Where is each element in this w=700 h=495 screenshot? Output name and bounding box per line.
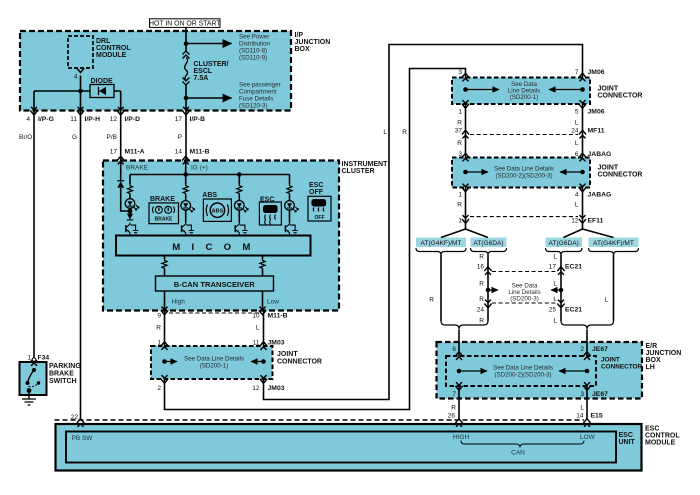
svg-text:F34: F34 <box>38 355 50 362</box>
svg-text:5: 5 <box>575 109 579 116</box>
svg-text:L: L <box>575 140 579 147</box>
svg-text:AT(G4KF)/MT: AT(G4KF)/MT <box>421 240 462 247</box>
svg-text:SWITCH: SWITCH <box>49 378 77 385</box>
svg-text:1: 1 <box>458 218 462 225</box>
svg-text:Br/O: Br/O <box>19 134 32 141</box>
svg-text:JM03: JM03 <box>268 385 285 392</box>
svg-text:L: L <box>605 297 609 304</box>
svg-text:See Power: See Power <box>239 34 269 41</box>
svg-text:JOINT: JOINT <box>601 357 620 364</box>
svg-text:CONNECTOR: CONNECTOR <box>598 93 643 100</box>
svg-text:P: P <box>178 134 182 141</box>
svg-text:L: L <box>580 405 584 412</box>
svg-text:1: 1 <box>458 192 462 199</box>
svg-text:BRAKE: BRAKE <box>126 165 149 172</box>
svg-text:24: 24 <box>477 307 485 314</box>
svg-text:1: 1 <box>157 340 161 347</box>
svg-text:7: 7 <box>452 391 456 398</box>
svg-text:(SD110-8): (SD110-8) <box>239 48 267 55</box>
svg-text:L: L <box>575 120 579 127</box>
svg-text:R: R <box>451 405 456 412</box>
svg-text:AT(G6DA): AT(G6DA) <box>549 240 579 247</box>
svg-text:ESC: ESC <box>645 426 659 433</box>
svg-text:See Data Line Details: See Data Line Details <box>184 356 244 363</box>
svg-text:HOT IN ON OR START: HOT IN ON OR START <box>149 21 221 28</box>
svg-text:LH: LH <box>646 364 655 371</box>
svg-text:(SD200-2)(SD200-3): (SD200-2)(SD200-3) <box>494 372 551 379</box>
svg-text:G: G <box>72 134 77 141</box>
svg-text:ABS: ABS <box>202 192 217 199</box>
svg-text:JE67: JE67 <box>592 391 608 398</box>
svg-text:INSTRUMENT: INSTRUMENT <box>342 161 389 168</box>
svg-text:ABS: ABS <box>211 209 223 215</box>
svg-text:10: 10 <box>252 313 260 320</box>
svg-text:BOX: BOX <box>646 357 662 364</box>
svg-text:17: 17 <box>549 264 557 271</box>
svg-text:OFF: OFF <box>309 189 324 196</box>
svg-text:CONNECTOR: CONNECTOR <box>601 364 642 371</box>
svg-text:L: L <box>553 296 557 303</box>
svg-text:12: 12 <box>110 116 118 123</box>
svg-text:DRL: DRL <box>96 38 111 45</box>
svg-text:4: 4 <box>575 192 579 199</box>
svg-text:MODULE: MODULE <box>645 440 676 447</box>
svg-text:CAN: CAN <box>511 450 525 457</box>
svg-text:M11-B: M11-B <box>190 149 210 156</box>
svg-text:OFF: OFF <box>315 215 325 221</box>
svg-text:BRAKE: BRAKE <box>49 371 74 378</box>
svg-text:22: 22 <box>71 414 79 421</box>
svg-text:BOX: BOX <box>295 46 311 53</box>
svg-text:3: 3 <box>580 391 584 398</box>
svg-text:4: 4 <box>26 116 30 123</box>
svg-text:2: 2 <box>580 346 584 353</box>
svg-text:I/P-H: I/P-H <box>85 116 101 123</box>
svg-text:I/P-D: I/P-D <box>125 116 141 123</box>
svg-text:See passenger: See passenger <box>239 82 281 89</box>
svg-text:L: L <box>575 202 579 209</box>
svg-text:UNIT: UNIT <box>619 439 636 446</box>
svg-text:9: 9 <box>157 313 161 320</box>
svg-text:JUNCTION: JUNCTION <box>295 39 331 46</box>
svg-text:R: R <box>479 296 484 303</box>
svg-text:IG (+): IG (+) <box>191 165 208 172</box>
svg-text:HIGH: HIGH <box>453 434 470 441</box>
svg-text:B-CAN TRANSCEIVER: B-CAN TRANSCEIVER <box>174 280 256 289</box>
svg-text:17: 17 <box>110 149 118 156</box>
svg-text:3: 3 <box>458 69 462 76</box>
svg-text:R: R <box>479 318 484 325</box>
svg-text:Fuse Details: Fuse Details <box>239 96 273 103</box>
svg-text:R: R <box>479 281 484 288</box>
svg-text:1: 1 <box>458 109 462 116</box>
svg-text:L: L <box>256 325 260 332</box>
svg-text:14: 14 <box>576 413 584 420</box>
svg-text:E/R: E/R <box>646 343 658 350</box>
svg-text:CONNECTOR: CONNECTOR <box>277 359 322 366</box>
svg-text:(SD200-3): (SD200-3) <box>510 296 539 303</box>
svg-text:CONTROL: CONTROL <box>645 433 680 440</box>
svg-text:ESC: ESC <box>260 197 274 204</box>
svg-text:(SD110-9): (SD110-9) <box>239 55 267 62</box>
svg-text:P/B: P/B <box>107 134 117 141</box>
svg-text:6: 6 <box>575 151 579 158</box>
svg-text:37: 37 <box>455 128 463 135</box>
svg-text:12: 12 <box>252 385 260 392</box>
svg-text:R: R <box>457 120 462 127</box>
svg-text:BRAKE: BRAKE <box>150 196 175 203</box>
svg-text:PB SW: PB SW <box>72 435 94 442</box>
svg-text:I/P-G: I/P-G <box>38 116 54 123</box>
svg-text:EF11: EF11 <box>588 218 604 225</box>
svg-text:R: R <box>457 202 462 209</box>
svg-text:4: 4 <box>74 74 78 81</box>
svg-text:AT(G4KF)/MT: AT(G4KF)/MT <box>593 240 634 247</box>
svg-text:EC21: EC21 <box>565 264 582 271</box>
svg-text:7: 7 <box>575 69 579 76</box>
svg-text:(SD200-2)(SD200-3): (SD200-2)(SD200-3) <box>495 173 552 180</box>
svg-text:Low: Low <box>267 299 279 306</box>
svg-text:JABAG: JABAG <box>588 192 612 199</box>
svg-text:JM06: JM06 <box>588 109 605 116</box>
svg-text:ESC: ESC <box>309 182 323 189</box>
svg-text:High: High <box>172 299 186 306</box>
svg-text:7.5A: 7.5A <box>194 75 209 82</box>
svg-text:12: 12 <box>571 218 579 225</box>
svg-text:PARKING: PARKING <box>49 363 81 370</box>
svg-text:L: L <box>553 254 557 261</box>
svg-text:L: L <box>553 281 557 288</box>
svg-text:E15: E15 <box>591 413 603 420</box>
svg-text:25: 25 <box>549 307 557 314</box>
svg-text:6: 6 <box>452 346 456 353</box>
svg-text:R: R <box>457 140 462 147</box>
svg-text:R: R <box>429 297 434 304</box>
svg-text:Compartment: Compartment <box>239 89 277 96</box>
svg-text:1: 1 <box>27 355 31 362</box>
svg-text:26: 26 <box>448 413 456 420</box>
svg-text:24: 24 <box>571 128 579 135</box>
svg-text:M11-A: M11-A <box>125 149 145 156</box>
svg-text:MF11: MF11 <box>588 128 605 135</box>
svg-text:CONNECTOR: CONNECTOR <box>598 172 643 179</box>
svg-text:JUNCTION: JUNCTION <box>646 350 682 357</box>
svg-text:CONTROL: CONTROL <box>96 45 131 52</box>
svg-text:EC21: EC21 <box>565 307 582 314</box>
svg-text:JOINT: JOINT <box>277 351 298 358</box>
svg-text:Distribution: Distribution <box>239 41 271 48</box>
svg-text:JM06: JM06 <box>588 69 605 76</box>
svg-text:L: L <box>553 318 557 325</box>
svg-text:R: R <box>156 325 161 332</box>
svg-text:2: 2 <box>157 385 161 392</box>
svg-text:14: 14 <box>175 149 183 156</box>
svg-text:JOINT: JOINT <box>598 86 619 93</box>
svg-text:JE67: JE67 <box>592 346 608 353</box>
svg-text:I/P-B: I/P-B <box>190 116 206 123</box>
svg-text:17: 17 <box>175 116 183 123</box>
svg-text:AT(G6DA): AT(G6DA) <box>473 240 503 247</box>
svg-text:JOINT: JOINT <box>598 165 619 172</box>
svg-text:L: L <box>383 129 387 136</box>
svg-text:See Data Line Details: See Data Line Details <box>493 365 553 372</box>
svg-text:DIODE: DIODE <box>91 78 114 85</box>
svg-text:ESCL: ESCL <box>194 68 213 75</box>
svg-text:11: 11 <box>253 340 260 347</box>
svg-text:R: R <box>402 129 407 136</box>
svg-text:3: 3 <box>458 151 462 158</box>
svg-text:I/P: I/P <box>295 32 304 39</box>
svg-text:ESC: ESC <box>619 432 633 439</box>
svg-text:JM03: JM03 <box>268 340 285 347</box>
svg-text:16: 16 <box>477 264 485 271</box>
svg-text:M I C O M: M I C O M <box>172 242 254 253</box>
svg-text:(SD200-1): (SD200-1) <box>510 94 539 101</box>
svg-text:CLUSTER: CLUSTER <box>342 168 375 175</box>
svg-text:MODULE: MODULE <box>96 52 127 59</box>
svg-text:11: 11 <box>70 116 77 123</box>
svg-text:BRAKE: BRAKE <box>155 217 173 223</box>
svg-text:LOW: LOW <box>580 434 596 441</box>
svg-text:(SD200-1): (SD200-1) <box>200 363 229 370</box>
svg-text:JABAG: JABAG <box>588 151 612 158</box>
svg-text:(SD120-3): (SD120-3) <box>239 103 268 110</box>
svg-text:M11-B: M11-B <box>268 313 288 320</box>
svg-text:CLUSTER/: CLUSTER/ <box>194 61 229 68</box>
svg-text:See Data Line Details: See Data Line Details <box>494 166 554 173</box>
svg-text:R: R <box>479 254 484 261</box>
